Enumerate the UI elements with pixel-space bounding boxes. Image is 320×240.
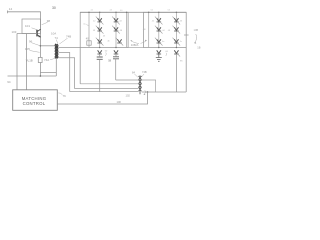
- resistor box R1: [87, 41, 91, 45]
- svg-text:42: 42: [152, 21, 155, 23]
- diode DB1: [157, 50, 162, 54]
- node junction 147.5,92: [147, 91, 149, 93]
- wire control y83.8: [80, 83, 138, 85]
- svg-text:74B: 74B: [142, 70, 147, 74]
- component box 108 on wire: [38, 57, 42, 62]
- diode DA2: [114, 50, 119, 54]
- diode A2a: [112, 17, 120, 25]
- svg-text:48: 48: [93, 30, 96, 32]
- diode B2c: [173, 38, 181, 46]
- svg-text:VL1B: VL1B: [26, 58, 33, 62]
- diode B1c: [155, 38, 163, 46]
- wire control y91.6: [70, 91, 139, 93]
- branch wire A1: [99, 12, 101, 47]
- connector X stack: [139, 75, 142, 94]
- below box1 column A1: diode + capacitor: [99, 47, 100, 48]
- diode A2b: [112, 26, 120, 34]
- svg-text:101: 101: [25, 24, 30, 28]
- capacitor C1: [97, 57, 103, 59]
- svg-text:4B: 4B: [120, 30, 123, 32]
- ground G1: [156, 54, 162, 61]
- wire box2 right edge extension: [185, 48, 187, 93]
- svg-text:44: 44: [110, 10, 113, 12]
- branch wire A2: [115, 12, 117, 47]
- svg-text:52: 52: [151, 10, 154, 12]
- wire box1 left edge extension: [79, 48, 81, 84]
- diode B1a: [155, 17, 163, 25]
- svg-text:48: 48: [168, 30, 171, 32]
- tick on box2 right edge: [184, 34, 189, 36]
- svg-text:42: 42: [93, 21, 96, 23]
- wire x176.4 down to bus y92: [175, 54, 177, 92]
- svg-text:46: 46: [120, 10, 123, 12]
- wire control y88.6: [75, 88, 139, 90]
- diode B1b: [155, 26, 163, 34]
- arrow at X bottom: [144, 90, 146, 94]
- branch wire B2: [175, 12, 177, 47]
- svg-text:42: 42: [91, 10, 94, 12]
- svg-text:76: 76: [63, 94, 67, 98]
- below box1 column A2: diode + capacitor: [115, 47, 116, 48]
- svg-text:60: 60: [166, 51, 169, 53]
- svg-text:14: 14: [9, 7, 13, 11]
- svg-text:96: 96: [180, 61, 183, 63]
- diode A1b: [96, 26, 104, 34]
- capacitor C2: [113, 57, 119, 59]
- top bus: [80, 11, 186, 13]
- wire transformer top right to box1 edge: [59, 47, 81, 49]
- bus y76: [8, 75, 57, 77]
- wire connector between boxes y47.5: [128, 47, 143, 49]
- wire y80 jog right of X: [142, 80, 156, 92]
- wire plain branch x89: [88, 12, 90, 47]
- svg-text:CONTROL: CONTROL: [23, 101, 46, 106]
- svg-text:44: 44: [162, 30, 165, 32]
- wire control line x17: [16, 34, 18, 90]
- transistor Q1: [37, 29, 41, 37]
- wire antenna feed tick: [7, 11, 9, 14]
- control box: [13, 90, 58, 111]
- wire top-left feed line into main vertical: [8, 12, 41, 58]
- branch wire B1: [158, 12, 160, 47]
- wire control line x26.5: [26, 34, 28, 90]
- svg-text:102: 102: [126, 94, 131, 98]
- svg-text:4b: 4b: [107, 41, 110, 43]
- diode B2b: [173, 26, 181, 34]
- svg-text:103: 103: [12, 30, 17, 34]
- svg-text:94: 94: [7, 80, 11, 84]
- svg-text:105: 105: [25, 47, 30, 51]
- diode A1a: [96, 17, 104, 25]
- svg-text:4a: 4a: [83, 24, 86, 26]
- diode DA1: [97, 50, 102, 54]
- below box2 column B1: diode + ground: [158, 47, 159, 48]
- node junction 40.5,76: [40, 75, 42, 77]
- below box2 column B2: diode to bus: [176, 47, 177, 48]
- svg-text:44: 44: [119, 21, 122, 23]
- svg-text:10B: 10B: [194, 28, 199, 32]
- svg-text:74: 74: [55, 36, 59, 40]
- svg-text:74B: 74B: [66, 35, 71, 39]
- diode A1c: [96, 38, 104, 46]
- svg-text:84: 84: [132, 70, 135, 74]
- svg-text:4c: 4c: [180, 41, 182, 43]
- svg-text:74A: 74A: [44, 58, 49, 62]
- svg-text:1B: 1B: [197, 46, 200, 50]
- wire control line y57.7: [58, 58, 74, 89]
- svg-text:58: 58: [108, 58, 111, 62]
- svg-text:30: 30: [52, 6, 56, 10]
- svg-text:46: 46: [180, 21, 183, 23]
- diode B2a: [173, 17, 181, 25]
- wire down from C2 to control line y80: [116, 54, 138, 80]
- wire secondary return y72.5: [41, 72, 57, 74]
- svg-text:10A: 10A: [51, 32, 56, 36]
- wire below component box: [39, 63, 41, 77]
- wire plain branch x126.6: [126, 12, 128, 47]
- wire plain branch x148.7: [148, 12, 150, 47]
- diode A2c: [116, 38, 124, 46]
- diode DB2: [174, 50, 180, 56]
- box 10B cell bank: [144, 12, 187, 47]
- svg-text:46: 46: [103, 36, 106, 38]
- wire base line y33.5: [17, 33, 37, 35]
- box 10A cell bank: [80, 12, 128, 47]
- transformer 74 windings: [55, 44, 58, 59]
- svg-text:4a: 4a: [162, 41, 165, 43]
- svg-text:50: 50: [105, 51, 108, 53]
- wire to transformer primary: [40, 45, 55, 47]
- wire bus y92 to right: [142, 91, 186, 93]
- svg-text:54: 54: [168, 10, 171, 12]
- svg-text:100: 100: [117, 100, 122, 104]
- label 74A leader: [50, 58, 55, 59]
- box 101 oscillator: [22, 19, 41, 34]
- wire feedback drop to control box: [57, 92, 147, 104]
- svg-text:4B: 4B: [143, 29, 146, 31]
- node junction: [40, 45, 42, 47]
- wire transformer bottom to bus: [55, 59, 57, 77]
- wire control line y52.5: [59, 53, 70, 92]
- wire down from C1: [99, 54, 101, 92]
